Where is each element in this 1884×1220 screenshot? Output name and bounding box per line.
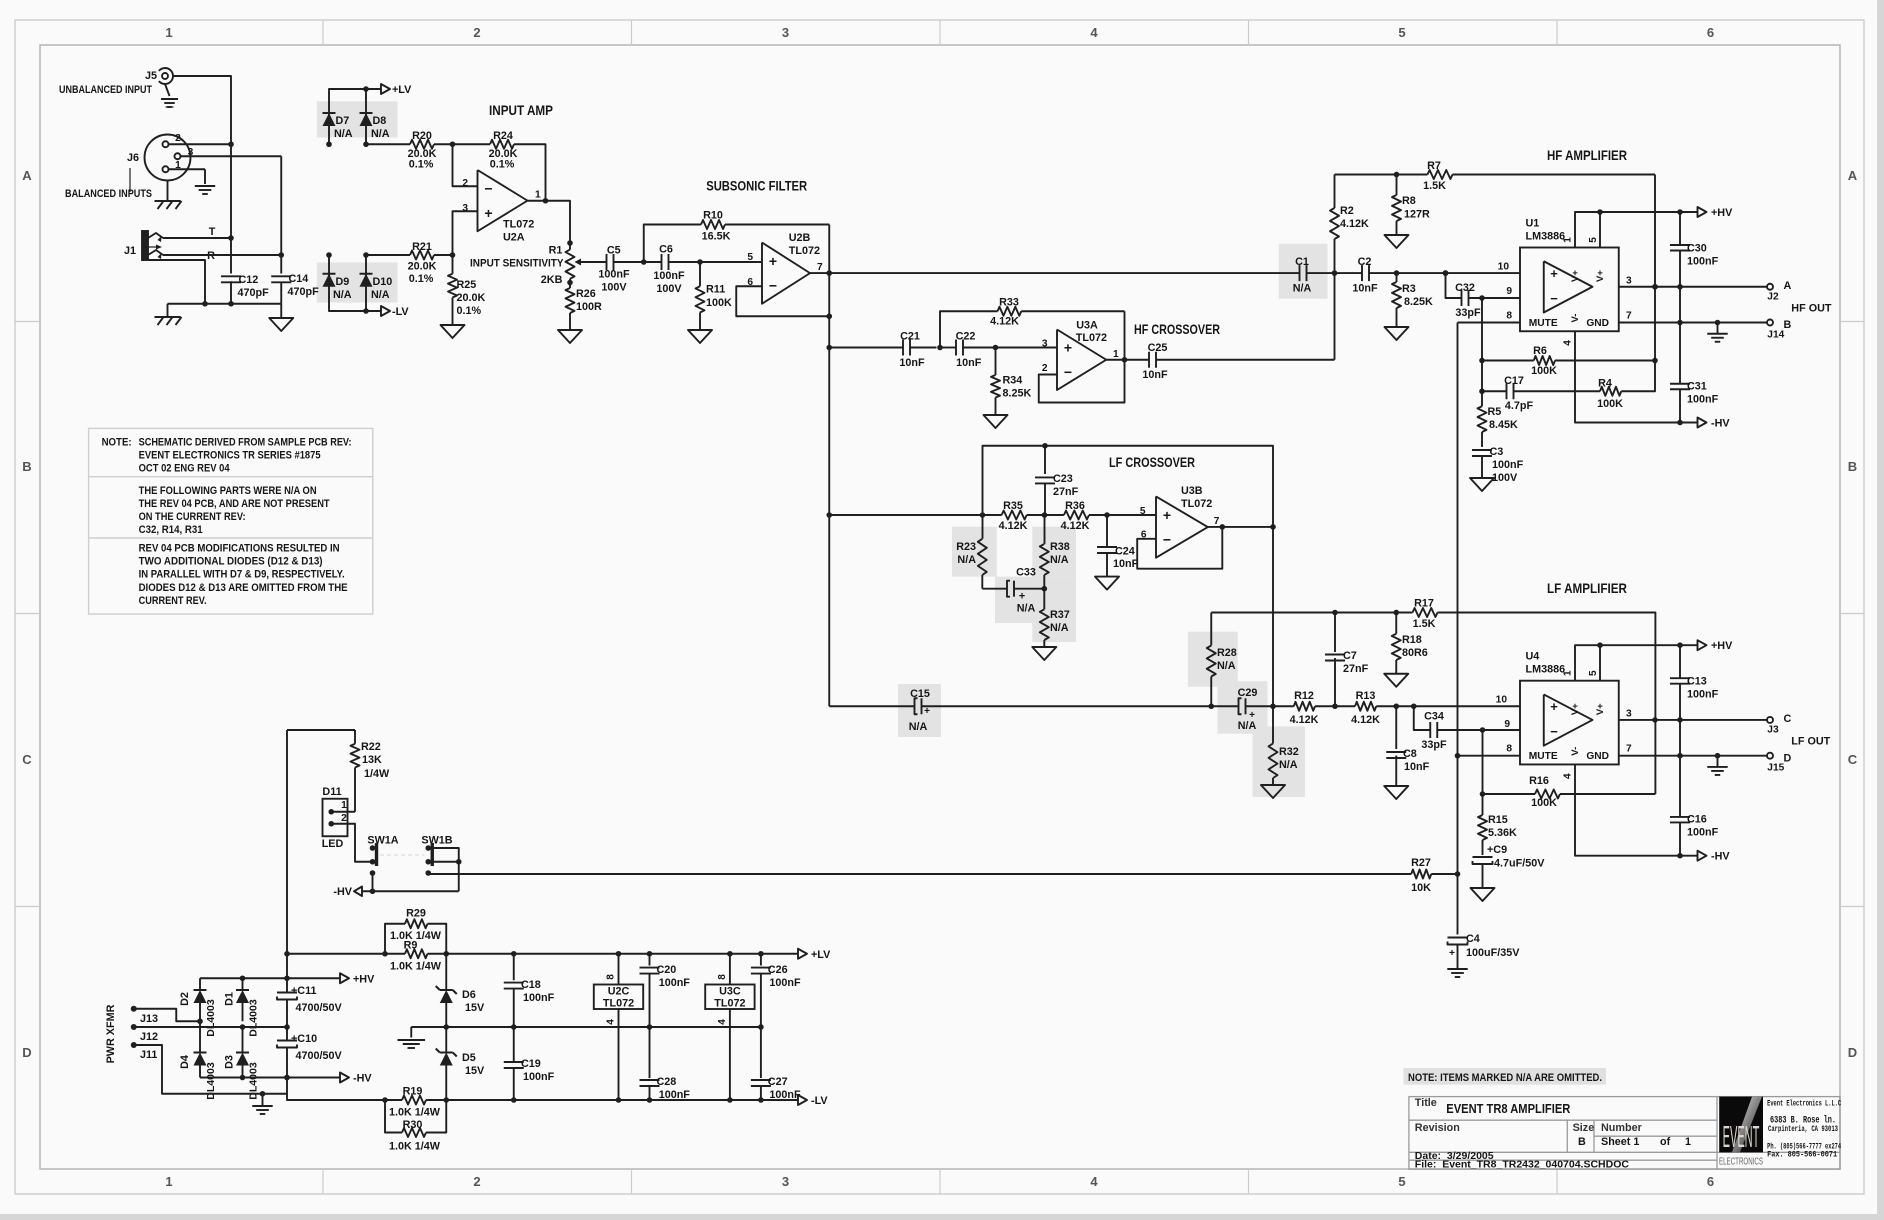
svg-text:R30: R30 [403,1119,423,1131]
svg-text:C29: C29 [1238,687,1258,699]
svg-text:1: 1 [535,190,541,201]
svg-text:C23: C23 [1053,473,1073,485]
svg-text:33pF: 33pF [1455,307,1481,319]
svg-text:4700/50V: 4700/50V [296,1050,343,1062]
svg-text:INPUT SENSITIVITY: INPUT SENSITIVITY [470,258,564,270]
svg-text:C21: C21 [900,331,920,343]
svg-text:5: 5 [1398,25,1405,40]
svg-text:R16: R16 [1529,775,1549,787]
svg-text:100uF/35V: 100uF/35V [1466,947,1520,959]
svg-text:A: A [22,168,32,183]
svg-text:100nF: 100nF [523,1071,555,1083]
svg-text:HF CROSSOVER: HF CROSSOVER [1134,321,1220,337]
svg-text:R13: R13 [1356,690,1376,702]
svg-text:1: 1 [1563,237,1574,243]
svg-text:BALANCED INPUTS: BALANCED INPUTS [65,188,152,200]
svg-text:1: 1 [1113,349,1119,360]
svg-text:V+: V+ [1570,270,1581,282]
svg-text:U3C: U3C [719,986,741,998]
svg-text:HF OUT: HF OUT [1791,302,1832,314]
svg-text:+: + [484,205,492,221]
svg-text:15V: 15V [465,1065,485,1077]
svg-text:B: B [1848,459,1857,474]
svg-text:10nF: 10nF [899,357,925,369]
svg-text:U3B: U3B [1181,485,1203,497]
svg-text:INPUT AMP: INPUT AMP [489,102,553,118]
svg-text:J12: J12 [140,1031,158,1043]
svg-text:100nF: 100nF [1687,689,1719,701]
svg-text:R35: R35 [1003,500,1023,512]
svg-text:127R: 127R [1404,209,1430,221]
svg-text:R5: R5 [1488,406,1502,418]
svg-text:C15: C15 [910,688,930,700]
svg-text:B: B [1578,1136,1586,1148]
svg-text:DIODES D12 & D13 ARE OMITTED F: DIODES D12 & D13 ARE OMITTED FROM THE [139,582,348,594]
svg-text:C13: C13 [1687,676,1707,688]
svg-text:Size: Size [1573,1122,1595,1134]
svg-text:+HV: +HV [1711,207,1733,219]
svg-text:+C9: +C9 [1487,844,1507,856]
svg-text:R11: R11 [706,284,725,296]
svg-text:+: + [1550,266,1558,281]
svg-text:10nF: 10nF [1404,761,1430,773]
svg-text:EVENT TR8 AMPLIFIER: EVENT TR8 AMPLIFIER [1446,1101,1571,1116]
svg-text:1.0K 1/4W: 1.0K 1/4W [390,961,442,973]
svg-text:8: 8 [717,974,728,980]
svg-text:N/A: N/A [1050,554,1069,566]
svg-text:J13: J13 [140,1013,158,1025]
svg-text:−: − [769,277,777,293]
svg-text:File: Event_TR8_TR2432_040704: File: Event_TR8_TR2432_040704.SCHDOC [1415,1159,1630,1171]
svg-text:100K: 100K [1531,365,1557,377]
svg-text:100nF: 100nF [769,977,801,989]
svg-text:C19: C19 [521,1058,541,1070]
svg-text:100V: 100V [656,283,682,295]
svg-text:LF OUT: LF OUT [1791,736,1830,748]
svg-text:R21: R21 [412,241,432,253]
svg-text:10nF: 10nF [1352,283,1378,295]
svg-text:HF AMPLIFIER: HF AMPLIFIER [1547,147,1627,163]
svg-text:6: 6 [1707,1174,1714,1189]
svg-text:10: 10 [1496,695,1508,706]
svg-text:7: 7 [1214,516,1220,527]
svg-text:U2B: U2B [789,232,811,244]
svg-text:NOTE:: NOTE: [102,436,132,448]
svg-text:R23: R23 [956,541,976,553]
svg-text:33pF: 33pF [1421,739,1447,751]
svg-text:C4: C4 [1466,933,1480,945]
svg-text:SCHEMATIC DERIVED FROM SAMPLE: SCHEMATIC DERIVED FROM SAMPLE PCB REV: [139,436,352,448]
svg-text:N/A: N/A [1279,759,1298,771]
svg-text:+C11: +C11 [291,985,317,997]
svg-text:TL072: TL072 [1181,498,1212,510]
svg-text:−: − [1550,724,1558,739]
svg-text:V+: V+ [1595,270,1606,282]
svg-text:C31: C31 [1687,381,1707,393]
svg-text:R18: R18 [1402,634,1422,646]
svg-text:J1: J1 [124,245,136,257]
svg-text:20.0K: 20.0K [457,292,486,304]
svg-text:GND: GND [1586,318,1609,329]
svg-text:N/A: N/A [371,289,390,301]
svg-text:R34: R34 [1003,375,1023,387]
svg-text:D: D [1848,1045,1857,1060]
svg-text:100V: 100V [601,282,627,294]
svg-text:4.12K: 4.12K [999,520,1028,532]
svg-text:R26: R26 [576,288,596,300]
svg-text:4.7uF/50V: 4.7uF/50V [1494,858,1545,870]
svg-text:+: + [1550,699,1558,714]
svg-text:MUTE: MUTE [1529,318,1558,329]
svg-text:LF CROSSOVER: LF CROSSOVER [1109,454,1195,470]
svg-text:−: − [1163,531,1171,547]
svg-text:R38: R38 [1050,541,1070,553]
svg-text:D10: D10 [373,276,393,288]
svg-text:5: 5 [747,252,753,263]
svg-text:3: 3 [1626,276,1632,287]
svg-text:1.5K: 1.5K [1413,618,1436,630]
svg-text:27nF: 27nF [1053,486,1079,498]
svg-text:J3: J3 [1767,725,1779,736]
svg-text:3: 3 [1626,709,1632,720]
svg-text:4.12K: 4.12K [1061,520,1090,532]
svg-text:U4: U4 [1526,651,1540,663]
svg-text:100nF: 100nF [1687,394,1719,406]
svg-text:10nF: 10nF [956,357,982,369]
svg-text:Number: Number [1601,1122,1643,1134]
svg-text:V+: V+ [1595,703,1606,715]
svg-text:T: T [209,226,216,238]
svg-text:J2: J2 [1767,292,1779,303]
svg-text:V-: V- [1570,747,1581,756]
svg-text:470pF: 470pF [288,286,320,298]
svg-text:-LV: -LV [811,1095,828,1107]
svg-text:Event Electronics L.L.C: Event Electronics L.L.C [1767,1099,1841,1109]
svg-text:R12: R12 [1294,690,1314,702]
svg-text:U2C: U2C [608,986,630,998]
svg-text:R19: R19 [403,1086,423,1098]
svg-text:D3: D3 [224,1055,236,1069]
svg-text:4: 4 [1563,773,1574,779]
svg-text:D5: D5 [462,1052,476,1064]
svg-text:8: 8 [1506,311,1512,322]
svg-text:−: − [1550,291,1558,306]
svg-text:TL072: TL072 [603,998,634,1010]
svg-text:4: 4 [717,1019,728,1025]
svg-text:DL4003: DL4003 [247,999,259,1037]
svg-text:ELECTRONICS: ELECTRONICS [1719,1156,1763,1168]
svg-text:R28: R28 [1217,647,1237,659]
svg-text:100K: 100K [706,297,732,309]
svg-text:100nF: 100nF [1492,459,1524,471]
svg-text:C5: C5 [607,245,621,257]
svg-text:R17: R17 [1414,598,1434,610]
svg-text:2KB: 2KB [541,274,563,286]
svg-text:THE REV 04 PCB, AND ARE NOT PR: THE REV 04 PCB, AND ARE NOT PRESENT [139,498,330,510]
svg-text:N/A: N/A [1050,622,1069,634]
svg-text:C3: C3 [1490,446,1504,458]
svg-text:R25: R25 [457,279,477,291]
svg-text:C8: C8 [1403,748,1417,760]
svg-text:1: 1 [165,1174,172,1189]
svg-text:5: 5 [1588,670,1599,676]
svg-text:C2: C2 [1358,256,1372,268]
svg-text:-LV: -LV [392,306,409,318]
svg-text:TL072: TL072 [789,245,820,257]
svg-text:7: 7 [1626,311,1632,322]
svg-text:5.36K: 5.36K [1488,827,1517,839]
svg-text:3: 3 [462,203,468,214]
svg-text:D7: D7 [336,115,350,127]
svg-text:C17: C17 [1504,375,1524,387]
svg-text:100nF: 100nF [1687,827,1719,839]
svg-text:TL072: TL072 [714,998,745,1010]
svg-text:100nF: 100nF [653,270,685,282]
svg-text:D9: D9 [336,276,350,288]
svg-text:SW1B: SW1B [421,835,452,847]
svg-text:+: + [1019,591,1025,603]
svg-text:8.45K: 8.45K [1489,419,1518,431]
svg-text:9: 9 [1506,286,1512,297]
svg-text:1: 1 [341,800,347,811]
svg-text:J6: J6 [127,152,139,164]
svg-text:N/A: N/A [1217,660,1236,672]
svg-text:C16: C16 [1687,814,1707,826]
svg-text:R7: R7 [1427,160,1441,172]
svg-text:-HV: -HV [1711,851,1730,863]
svg-text:R10: R10 [703,210,723,222]
svg-text:R6: R6 [1533,345,1547,357]
svg-text:3: 3 [782,1174,789,1189]
svg-text:D: D [1784,752,1792,764]
svg-text:R9: R9 [404,940,418,952]
svg-text:2: 2 [341,813,347,824]
svg-text:D2: D2 [179,992,191,1006]
svg-text:1: 1 [165,25,172,40]
svg-text:2: 2 [473,25,480,40]
svg-text:3: 3 [782,25,789,40]
svg-text:J11: J11 [140,1049,157,1061]
svg-text:D11: D11 [322,786,341,798]
svg-text:MUTE: MUTE [1529,751,1558,762]
svg-text:C7: C7 [1343,650,1357,662]
svg-text:1: 1 [1563,670,1574,676]
svg-text:ON THE CURRENT REV:: ON THE CURRENT REV: [139,511,246,523]
svg-text:UNBALANCED INPUT: UNBALANCED INPUT [59,84,152,96]
svg-text:6: 6 [1707,25,1714,40]
svg-text:-HV: -HV [353,1073,372,1085]
svg-text:100nF: 100nF [769,1089,801,1101]
svg-text:8: 8 [606,974,617,980]
svg-text:D1: D1 [224,992,236,1006]
svg-text:+LV: +LV [392,84,412,96]
svg-text:4.12K: 4.12K [990,316,1019,328]
svg-text:D6: D6 [462,989,476,1001]
svg-text:100nF: 100nF [1687,256,1719,268]
svg-text:N/A: N/A [909,721,928,733]
svg-text:C22: C22 [956,331,976,343]
svg-text:C25: C25 [1148,342,1168,354]
svg-text:R37: R37 [1050,609,1070,621]
svg-text:LM3886: LM3886 [1526,664,1566,676]
svg-text:C20: C20 [657,964,677,976]
svg-text:NOTE: ITEMS MARKED N/A ARE OMI: NOTE: ITEMS MARKED N/A ARE OMITTED. [1408,1072,1602,1084]
svg-text:C: C [1848,752,1858,767]
svg-text:10nF: 10nF [1113,558,1139,570]
svg-text:4: 4 [606,1019,617,1025]
svg-text:D4: D4 [179,1055,191,1069]
svg-text:470pF: 470pF [238,287,270,299]
svg-text:0.1%: 0.1% [409,273,434,285]
svg-text:C: C [1784,713,1792,725]
svg-text:100R: 100R [576,301,602,313]
svg-text:OCT 02 ENG REV 04: OCT 02 ENG REV 04 [139,463,230,475]
svg-text:2: 2 [462,178,468,189]
svg-text:TL072: TL072 [1076,332,1107,344]
svg-text:R2: R2 [1340,205,1354,217]
svg-text:2: 2 [175,133,181,144]
svg-text:+: + [924,706,930,717]
svg-text:−: − [484,180,492,196]
svg-text:N/A: N/A [333,289,352,301]
svg-text:TL072: TL072 [503,219,534,231]
svg-text:A: A [1784,280,1792,292]
svg-text:R22: R22 [361,741,381,753]
svg-text:1.0K 1/4W: 1.0K 1/4W [389,1107,441,1119]
svg-text:LM3886: LM3886 [1526,231,1566,243]
svg-text:SUBSONIC FILTER: SUBSONIC FILTER [706,178,807,194]
svg-text:R8: R8 [1402,195,1416,207]
svg-text:+: + [769,253,777,269]
svg-text:R4: R4 [1598,378,1612,390]
svg-text:100nF: 100nF [523,992,555,1004]
svg-text:C33: C33 [1016,567,1036,579]
svg-text:10K: 10K [1411,882,1431,894]
svg-text:10: 10 [1498,262,1510,273]
svg-text:7: 7 [1626,744,1632,755]
svg-text:8.25K: 8.25K [1404,296,1433,308]
svg-text:CURRENT REV.: CURRENT REV. [139,595,207,607]
svg-text:N/A: N/A [1017,603,1036,615]
svg-text:R20: R20 [412,130,432,142]
svg-text:+: + [1064,340,1072,356]
svg-text:V+: V+ [1570,703,1581,715]
svg-text:+: + [1449,948,1455,959]
svg-text:B: B [1784,319,1792,331]
svg-text:N/A: N/A [371,128,390,140]
svg-text:R27: R27 [1411,857,1431,869]
svg-text:4.12K: 4.12K [1351,714,1380,726]
svg-text:R15: R15 [1488,814,1508,826]
svg-text:R3: R3 [1402,283,1416,295]
svg-text:LF AMPLIFIER: LF AMPLIFIER [1547,580,1627,596]
svg-text:Sheet 1: Sheet 1 [1601,1136,1639,1148]
svg-text:GND: GND [1586,751,1609,762]
svg-text:C18: C18 [521,979,541,991]
svg-text:80R6: 80R6 [1402,647,1428,659]
svg-text:C32: C32 [1455,282,1475,294]
svg-text:REV 04 PCB MODIFICATIONS RESUL: REV 04 PCB MODIFICATIONS RESULTED IN [139,543,340,555]
svg-text:+C10: +C10 [291,1033,317,1045]
svg-text:7: 7 [817,262,823,273]
svg-text:8.25K: 8.25K [1003,388,1032,400]
svg-text:C: C [22,752,32,767]
svg-text:of: of [1660,1136,1671,1148]
svg-text:16.5K: 16.5K [702,231,731,243]
svg-text:2: 2 [473,1174,480,1189]
svg-text:C30: C30 [1687,243,1707,255]
svg-text:+HV: +HV [353,973,375,985]
svg-text:4.7pF: 4.7pF [1505,400,1534,412]
svg-text:D8: D8 [373,115,387,127]
svg-text:100V: 100V [1492,472,1518,484]
svg-text:4: 4 [1090,1174,1098,1189]
svg-text:J14: J14 [1767,330,1784,341]
svg-text:J15: J15 [1767,763,1784,774]
svg-text:U3A: U3A [1076,320,1098,332]
svg-text:0.1%: 0.1% [457,305,482,317]
svg-text:R24: R24 [493,130,513,142]
svg-text:-HV: -HV [1711,418,1730,430]
svg-text:5: 5 [1140,506,1146,517]
svg-text:U2A: U2A [503,232,525,244]
svg-text:C14: C14 [289,273,309,285]
svg-text:C26: C26 [768,964,788,976]
svg-text:C34: C34 [1424,711,1444,723]
svg-text:B: B [22,459,31,474]
svg-text:2: 2 [1042,363,1048,374]
svg-text:V-: V- [1570,314,1581,323]
svg-text:U1: U1 [1526,218,1540,230]
svg-text:4.12K: 4.12K [1340,218,1369,230]
svg-text:A: A [1848,168,1858,183]
svg-text:9: 9 [1504,719,1510,730]
svg-text:IN PARALLEL WITH D7 & D9, RESP: IN PARALLEL WITH D7 & D9, RESPECTIVELY. [139,569,345,581]
svg-text:8: 8 [1506,744,1512,755]
svg-text:4.12K: 4.12K [1290,714,1319,726]
svg-text:100K: 100K [1597,398,1623,410]
svg-text:C32, R14, R31: C32, R14, R31 [139,524,203,536]
svg-text:+LV: +LV [811,949,831,961]
svg-text:Revision: Revision [1415,1122,1460,1134]
svg-text:4: 4 [1563,340,1574,346]
svg-text:1.5K: 1.5K [1423,180,1446,192]
svg-text:1: 1 [1685,1136,1691,1148]
svg-text:R36: R36 [1065,500,1085,512]
svg-text:R29: R29 [406,908,426,920]
svg-text:EVENT ELECTRONICS TR SERIES #1: EVENT ELECTRONICS TR SERIES #1875 [139,450,321,462]
svg-text:Fax. 805-566-0071: Fax. 805-566-0071 [1767,1151,1837,1160]
svg-text:PWR XFMR: PWR XFMR [105,1004,117,1063]
svg-text:C1: C1 [1295,256,1309,268]
svg-text:THE FOLLOWING PARTS WERE N/A O: THE FOLLOWING PARTS WERE N/A ON [139,485,317,497]
svg-text:+: + [1163,507,1171,523]
svg-text:R32: R32 [1279,746,1299,758]
svg-text:1/4W: 1/4W [364,768,390,780]
svg-text:R33: R33 [999,297,1019,309]
svg-text:C24: C24 [1115,546,1135,558]
svg-text:20.0K: 20.0K [408,261,437,273]
svg-text:5: 5 [1398,1174,1405,1189]
svg-text:Title: Title [1415,1097,1437,1109]
svg-text:J5: J5 [145,70,157,82]
svg-text:4700/50V: 4700/50V [296,1002,343,1014]
svg-text:SW1A: SW1A [367,835,398,847]
svg-text:100nF: 100nF [598,269,630,281]
svg-text:D: D [22,1045,31,1060]
svg-text:N/A: N/A [957,554,976,566]
svg-text:C27: C27 [768,1076,788,1088]
